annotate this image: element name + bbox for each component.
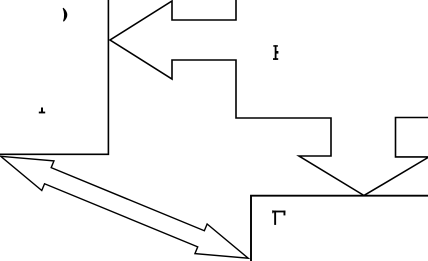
text: ")" glyph top-left: [63, 8, 67, 21]
bottom-right rectangle (clipped at canvas edges): [251, 196, 428, 261]
text: serif foot mark (bottom of character): [39, 108, 45, 114]
double-headed block arrow (two-way diagonal): [1, 156, 249, 258]
text: serif capital I mark: [273, 45, 278, 60]
left block arrow merged with down block arrow (composite outline, clipped): [110, 0, 428, 196]
wire: vertical line with horizontal bottom segment (clipped box edge): [0, 0, 108, 154]
text: Gamma glyph in rectangle: [272, 210, 285, 225]
